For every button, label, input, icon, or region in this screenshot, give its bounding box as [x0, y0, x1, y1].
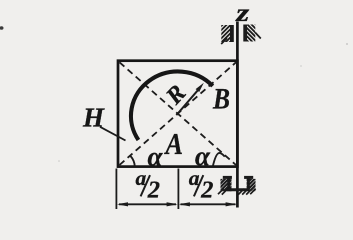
svg-text:2: 2: [147, 176, 160, 203]
svg-text:B: B: [212, 83, 230, 116]
svg-text:z: z: [235, 0, 250, 27]
svg-text:A: A: [164, 126, 183, 161]
svg-text:H: H: [82, 103, 105, 133]
svg-text:α: α: [148, 141, 164, 171]
svg-text:2: 2: [200, 176, 213, 203]
